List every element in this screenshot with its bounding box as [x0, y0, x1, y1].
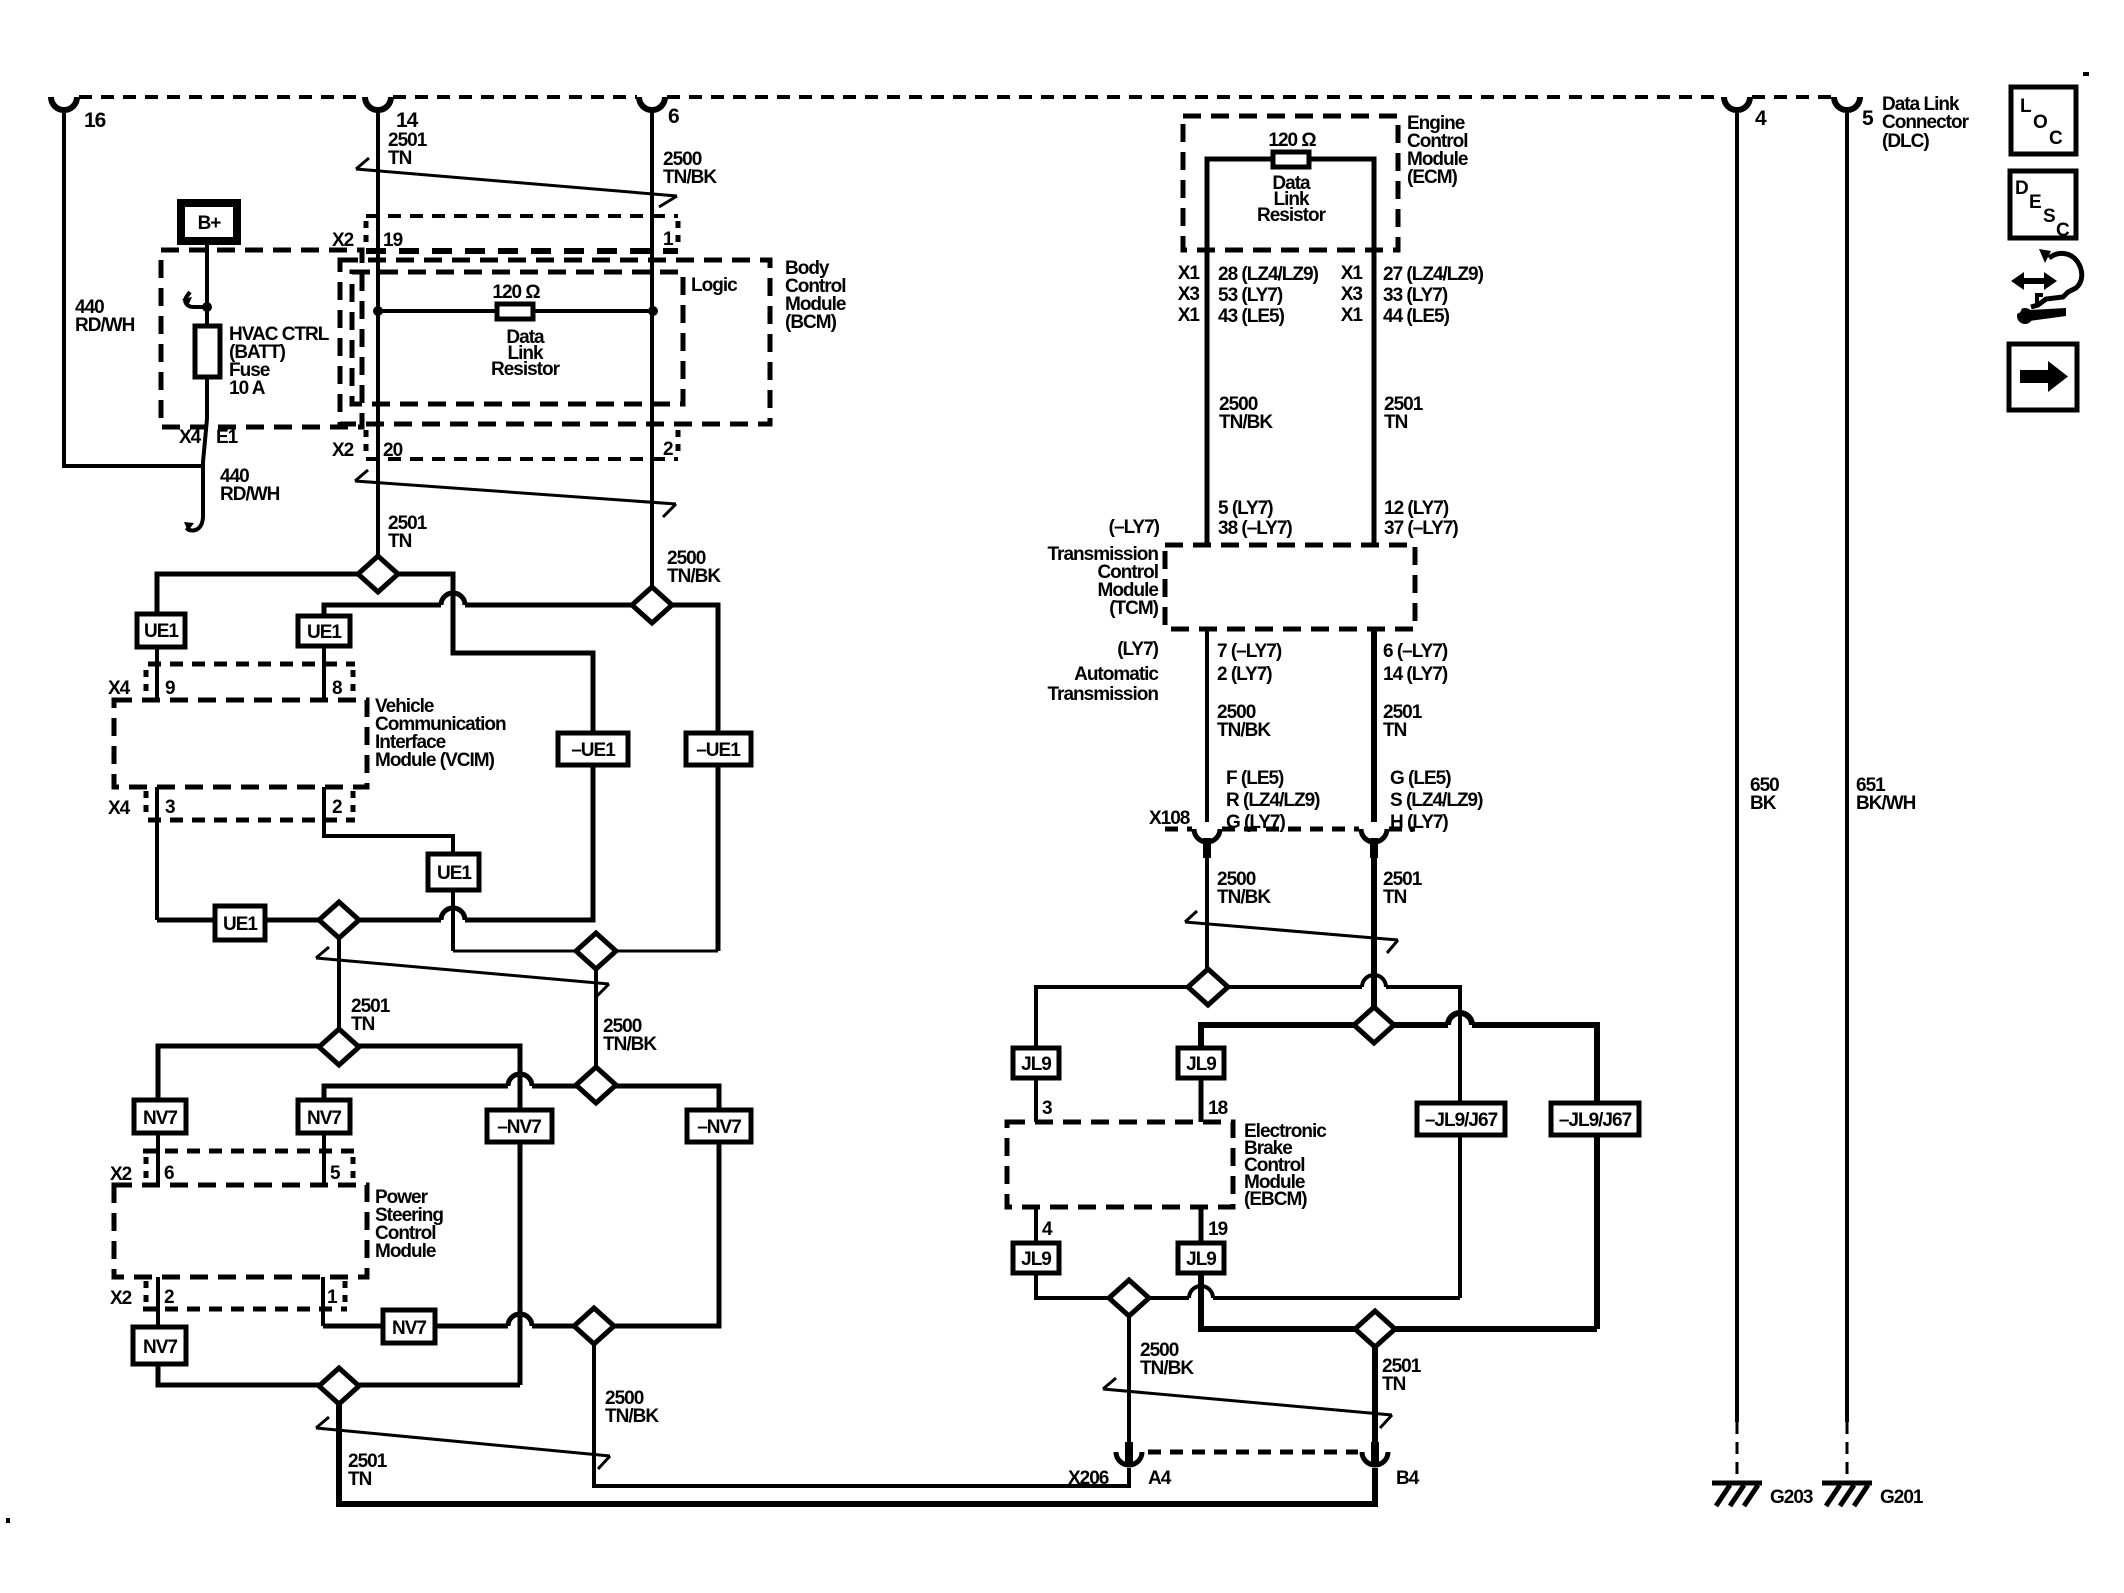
diamond splice on 2500 row B [632, 587, 672, 623]
BCM connector strip X2 pins 19 / 1 [366, 216, 678, 251]
wire 2500 below TCM [1205, 629, 1209, 822]
Data Link Resistor label BCM [491, 327, 561, 380]
wire label 2501 TN [351, 996, 391, 1035]
X206 dashed connector line [1148, 1450, 1358, 1455]
stray mark bottom left [6, 1518, 10, 1523]
svg-text:6: 6 [164, 1163, 174, 1184]
wire 440 RD/WH from DLC pin 16 [64, 108, 203, 466]
X108 male pin right [1370, 838, 1378, 858]
svg-text:O: O [2033, 112, 2047, 133]
svg-text:JL9: JL9 [1021, 1249, 1051, 1270]
CAN high row C 2501 [157, 765, 593, 920]
svg-text:TN/BK: TN/BK [1219, 412, 1273, 433]
svg-text:6 (–LY7): 6 (–LY7) [1383, 641, 1448, 662]
svg-text:4: 4 [1755, 107, 1767, 130]
BCM logic dashed box [352, 272, 683, 404]
svg-text:X4: X4 [179, 427, 202, 448]
svg-text:G (LE5): G (LE5) [1390, 768, 1451, 789]
svg-text:UE1: UE1 [437, 863, 472, 884]
vehicle wrench icon [2011, 249, 2082, 324]
junction dot at fuse top [202, 302, 212, 312]
wire 2500 TN/BK to X206 A4 [594, 1344, 1129, 1486]
wire label 2500 TN/BK [663, 149, 717, 188]
twisted pair symbol TCM [1185, 911, 1398, 953]
wire 2500 TN/BK between splices [594, 969, 598, 1068]
wire PSCM pin 2 [156, 1277, 160, 1327]
wire label 440 RD/WH lower [220, 466, 280, 505]
svg-text:2: 2 [164, 1287, 174, 1308]
JL9 code box pin4 [1013, 1243, 1059, 1273]
row4 2501 [1201, 1273, 1597, 1329]
svg-text:Transmission: Transmission [1048, 684, 1159, 705]
svg-text:Automatic: Automatic [1074, 664, 1159, 685]
X206 cup B4 [1362, 1452, 1388, 1465]
stray mark top right [2083, 72, 2089, 76]
svg-text:120 Ω: 120 Ω [1268, 130, 1316, 151]
DESC icon box [2010, 171, 2076, 241]
TCM module dashed box [1165, 545, 1415, 629]
wire label 2501 TN [1383, 702, 1423, 741]
DLC dashed bus line [79, 95, 1832, 99]
svg-text:–UE1: –UE1 [571, 740, 616, 761]
wire EBCM pin 3 [1034, 1078, 1038, 1122]
transmission usage pin labels left [1226, 768, 1320, 833]
svg-text:18: 18 [1208, 1098, 1228, 1119]
Data Link Resistor label ECM [1257, 173, 1327, 226]
row3 2500 [1036, 1273, 1460, 1298]
row F 2501 [158, 1046, 520, 1110]
Vehicle Communication Interface Module (VCIM) label [375, 696, 506, 771]
wire 2501 TN between splices [337, 938, 341, 1030]
DLC pin 14 connector cup [365, 97, 391, 110]
wire label 651 BK/WH [1856, 775, 1916, 814]
dashed lead to G203 [1736, 1422, 1739, 1480]
row1 2500 [1036, 975, 1460, 1103]
row2 2501 [1201, 1013, 1597, 1103]
wire VCIM pin 3 down [155, 787, 159, 920]
diamond splice row D [576, 933, 616, 969]
svg-text:33 (LY7): 33 (LY7) [1383, 285, 1448, 306]
svg-text:20: 20 [383, 440, 403, 461]
svg-text:3: 3 [1042, 1098, 1052, 1119]
X108 cup right [1361, 829, 1387, 842]
twisted pair symbol upper [356, 158, 677, 207]
Data Link Connector (DLC) label [1882, 94, 1970, 152]
NV7 code box on row H [383, 1310, 435, 1343]
svg-text:Module: Module [375, 1241, 436, 1262]
diamond splice row4 [1355, 1311, 1395, 1347]
hook arrow at fuse feed [185, 292, 205, 307]
wire below second -JL9/J67 [1594, 1135, 1600, 1329]
BCM connector strip X2 pins 20 / 2 [366, 430, 678, 459]
svg-text:–JL9/J67: –JL9/J67 [1559, 1110, 1632, 1131]
svg-text:JL9: JL9 [1186, 1054, 1216, 1075]
svg-text:(DLC): (DLC) [1882, 131, 1929, 152]
-JL9/J67 code box second [1551, 1103, 1639, 1135]
svg-text:53 (LY7): 53 (LY7) [1218, 285, 1283, 306]
svg-text:44 (LE5): 44 (LE5) [1383, 306, 1450, 327]
ground G203 [1712, 1483, 1762, 1506]
svg-text:X3: X3 [1178, 284, 1200, 305]
Transmission Control Module (TCM) label [1048, 544, 1159, 619]
wire below first -NV7 [518, 1142, 523, 1385]
-UE1 code box first [558, 733, 628, 765]
X108 dashed connector line [1165, 827, 1415, 832]
wire label 2501 TN [1382, 1356, 1422, 1395]
wire label 2500 TN/BK [1217, 869, 1271, 908]
svg-text:2: 2 [332, 797, 342, 818]
svg-text:14 (LY7): 14 (LY7) [1383, 664, 1448, 685]
wire 2501 below TCM [1371, 629, 1377, 822]
svg-text:43 (LE5): 43 (LE5) [1218, 306, 1285, 327]
hook arrow at wire end [186, 516, 203, 530]
wire VCIM pin 8 [322, 646, 326, 700]
svg-text:Connector: Connector [1882, 112, 1970, 133]
wire EBCM pin 19 [1199, 1207, 1204, 1243]
diamond splice row1 [1188, 969, 1228, 1005]
svg-text:38 (–LY7): 38 (–LY7) [1218, 518, 1292, 539]
svg-text:BK: BK [1750, 793, 1777, 814]
wire label 2500 TN/BK below BCM [667, 548, 721, 587]
svg-text:1: 1 [663, 229, 674, 250]
wire PSCM pin 1 [321, 1277, 325, 1326]
Automatic Transmission label [1048, 664, 1160, 705]
ECM data link resistor circuit wires [1207, 159, 1374, 545]
wire 650 BK [1735, 108, 1739, 1422]
wire label 2501 TN below BCM [388, 513, 428, 552]
X206 male pin A4 [1125, 1442, 1133, 1464]
JL9 code box pin19 [1178, 1243, 1224, 1273]
svg-text:120 Ω: 120 Ω [492, 282, 540, 303]
UE1 code box left [137, 614, 185, 647]
data link resistor wire in BCM [378, 309, 653, 313]
wire label 650 BK [1750, 775, 1779, 814]
svg-text:UE1: UE1 [223, 914, 258, 935]
UE1 code box center [428, 854, 479, 890]
BCM module dashed box [340, 260, 770, 424]
twisted pair symbol below BCM [355, 470, 676, 517]
-NV7 code box second [687, 1110, 751, 1142]
wire pin 6 into PSCM [156, 1133, 160, 1185]
svg-text:Module (VCIM): Module (VCIM) [375, 750, 495, 771]
Body Control Module (BCM) label [785, 258, 846, 333]
svg-text:12 (LY7): 12 (LY7) [1384, 498, 1449, 519]
wire label 2500 TN/BK [1217, 702, 1271, 741]
svg-text:10 A: 10 A [229, 378, 266, 399]
ground G201 [1822, 1483, 1872, 1506]
svg-text:3: 3 [165, 797, 175, 818]
svg-text:D: D [2015, 178, 2028, 199]
wire label 2500 TN/BK [603, 1016, 657, 1055]
svg-text:1: 1 [327, 1287, 338, 1308]
svg-text:X4: X4 [108, 798, 131, 819]
VCIM connector strip X4 pins 3 / 2 [146, 791, 355, 820]
svg-text:TN: TN [348, 1469, 372, 1490]
transmission usage pin labels right [1390, 768, 1483, 833]
JL9 code box pin3 [1013, 1048, 1059, 1078]
wire EBCM pin 18 [1199, 1078, 1204, 1122]
svg-text:X206: X206 [1068, 1468, 1109, 1489]
svg-text:X108: X108 [1149, 808, 1190, 829]
DLC pin 16 connector cup [51, 97, 77, 110]
NV7 code box pin2 [133, 1327, 186, 1364]
svg-text:(BCM): (BCM) [785, 312, 837, 333]
svg-text:TN/BK: TN/BK [667, 566, 721, 587]
CAN low row D 2500 [453, 950, 718, 953]
diamond splice row H [574, 1308, 614, 1344]
X108 male pin left [1203, 838, 1211, 858]
svg-text:TN: TN [351, 1014, 375, 1035]
svg-text:2: 2 [663, 439, 673, 460]
wire label 2501 TN [388, 130, 428, 169]
wire label 2500 TN/BK [1140, 1340, 1194, 1379]
svg-text:G201: G201 [1880, 1487, 1924, 1508]
svg-text:E1: E1 [216, 427, 239, 448]
CAN low row B 2500 [324, 593, 718, 733]
svg-text:NV7: NV7 [307, 1108, 341, 1129]
svg-text:X2: X2 [110, 1164, 132, 1185]
diamond splice row2 [1354, 1007, 1394, 1043]
ECM pin rows left [1178, 263, 1319, 327]
wire 2500 TN/BK to X206 [1127, 1316, 1131, 1442]
UE1 code box on row C [215, 906, 265, 940]
X206 male pin B4 [1371, 1442, 1379, 1464]
wire VCIM pin 2 to UE1 [324, 787, 453, 854]
UE1 code box second [298, 616, 350, 646]
svg-text:X1: X1 [1178, 305, 1201, 326]
svg-text:28 (LZ4/LZ9): 28 (LZ4/LZ9) [1218, 264, 1319, 285]
wire 2501 below X108 [1371, 858, 1377, 1007]
svg-text:C: C [2049, 128, 2063, 149]
svg-text:2 (LY7): 2 (LY7) [1217, 664, 1272, 685]
svg-text:7 (–LY7): 7 (–LY7) [1217, 641, 1282, 662]
svg-text:TN/BK: TN/BK [1217, 887, 1271, 908]
PSCM module dashed box [114, 1185, 367, 1277]
svg-text:NV7: NV7 [392, 1318, 426, 1339]
svg-text:X1: X1 [1341, 305, 1364, 326]
svg-text:6: 6 [668, 105, 679, 128]
svg-text:TN/BK: TN/BK [1140, 1358, 1194, 1379]
wire below first -JL9/J67 [1458, 1135, 1462, 1298]
svg-text:X1: X1 [1341, 263, 1364, 284]
svg-text:TN/BK: TN/BK [663, 167, 717, 188]
JL9 code box pin18 [1178, 1048, 1224, 1078]
CAN high row A 2501 [157, 574, 593, 733]
svg-text:X3: X3 [1341, 284, 1363, 305]
svg-text:5: 5 [330, 1163, 341, 1184]
wire label 440 RD/WH [75, 297, 135, 336]
svg-text:TN: TN [1383, 720, 1407, 741]
TCM pin labels upper right [1384, 498, 1458, 539]
Electronic Brake Control Module (EBCM) label [1244, 1121, 1327, 1210]
svg-text:Resistor: Resistor [491, 359, 561, 380]
junction node right [648, 306, 658, 316]
svg-text:TN: TN [388, 531, 412, 552]
VCIM connector strip X4 pins 9 / 8 [146, 664, 355, 697]
svg-text:(TCM): (TCM) [1109, 598, 1158, 619]
svg-text:8: 8 [332, 678, 342, 699]
Power Steering Control Module label [375, 1187, 443, 1262]
row G 2501 [158, 1364, 520, 1385]
svg-text:19: 19 [1208, 1219, 1228, 1240]
wire label 2501 TN [1383, 869, 1423, 908]
junction node left [373, 306, 383, 316]
svg-text:37 (–LY7): 37 (–LY7) [1384, 518, 1458, 539]
twisted pair symbol VCIM left [316, 947, 609, 997]
svg-text:(EBCM): (EBCM) [1244, 1189, 1307, 1210]
Engine Control Module (ECM) label [1407, 113, 1468, 188]
wire 2501 TN to X206 [1372, 1347, 1378, 1442]
svg-text:4: 4 [1042, 1219, 1053, 1240]
wire pin 5 into PSCM [322, 1133, 326, 1185]
svg-text:19: 19 [383, 230, 403, 251]
wire from B+ into fuse [205, 241, 209, 419]
svg-text:TN: TN [1382, 1374, 1406, 1395]
row E 2500 [324, 1074, 719, 1110]
wire below second -UE1 [716, 765, 721, 951]
ECM module dashed box [1183, 116, 1398, 250]
svg-text:(LY7): (LY7) [1117, 639, 1158, 660]
twisted pair symbol EBCM bottom [1103, 1378, 1392, 1428]
svg-text:RD/WH: RD/WH [75, 315, 135, 336]
svg-text:X2: X2 [110, 1288, 132, 1309]
svg-text:–NV7: –NV7 [697, 1117, 741, 1138]
svg-text:NV7: NV7 [143, 1108, 177, 1129]
diamond splice row C [319, 902, 359, 938]
-UE1 code box second [686, 733, 751, 765]
diamond splice on 2501 row A [358, 556, 398, 592]
wire label 2501 TN [1384, 394, 1424, 433]
svg-text:9: 9 [165, 678, 175, 699]
-NV7 code box first [487, 1110, 552, 1142]
svg-text:E: E [2029, 192, 2041, 213]
wire 2500 below X108 [1205, 858, 1209, 969]
TCM pin labels lower right [1383, 641, 1448, 685]
svg-text:5: 5 [1862, 107, 1874, 130]
diamond splice row G [319, 1368, 359, 1404]
svg-text:TN: TN [1384, 412, 1408, 433]
svg-text:JL9: JL9 [1186, 1249, 1216, 1270]
wire 2501 TN to X206 B4 [339, 1404, 1375, 1504]
resistor 120 ohm BCM [497, 304, 533, 319]
-JL9/J67 code box first [1417, 1103, 1505, 1135]
wire 651 BK/WH [1845, 108, 1849, 1422]
DLC pin 6 connector cup [639, 97, 665, 110]
HVAC fuse dashed box [161, 250, 362, 427]
svg-text:27 (LZ4/LZ9): 27 (LZ4/LZ9) [1383, 264, 1484, 285]
svg-text:Logic: Logic [691, 275, 738, 296]
svg-text:R (LZ4/LZ9): R (LZ4/LZ9) [1226, 790, 1320, 811]
svg-text:X2: X2 [332, 440, 354, 461]
arrow icon box [2009, 344, 2077, 410]
svg-text:A4: A4 [1148, 1468, 1172, 1489]
svg-text:X4: X4 [108, 678, 131, 699]
EBCM module dashed box [1007, 1122, 1233, 1207]
svg-text:S (LZ4/LZ9): S (LZ4/LZ9) [1390, 790, 1483, 811]
wire VCIM pin 9 [155, 647, 159, 700]
svg-text:5 (LY7): 5 (LY7) [1218, 498, 1273, 519]
svg-text:UE1: UE1 [144, 621, 179, 642]
wire below center UE1 [451, 890, 455, 951]
wire 440 RD/WH below fuse [203, 419, 207, 518]
LOC icon box [2011, 87, 2076, 154]
fuse label [229, 324, 330, 399]
wire 2501 TN from DLC pin 14 [376, 108, 380, 557]
svg-text:X2: X2 [332, 230, 354, 251]
X108 cup left [1194, 829, 1220, 842]
svg-text:S: S [2043, 206, 2055, 227]
svg-text:BK/WH: BK/WH [1856, 793, 1916, 814]
svg-text:B4: B4 [1396, 1468, 1420, 1489]
svg-text:UE1: UE1 [307, 622, 342, 643]
DLC pin 4 connector cup [1724, 97, 1750, 110]
NV7 code box pin5 [298, 1100, 350, 1133]
svg-text:C: C [2056, 220, 2070, 241]
PSCM connector strip X2 pins 6 / 5 [143, 1151, 355, 1183]
wire label 2500 TN/BK [605, 1388, 659, 1427]
svg-text:TN: TN [388, 148, 412, 169]
svg-text:RD/WH: RD/WH [220, 484, 280, 505]
svg-text:16: 16 [84, 109, 106, 132]
wire label 2501 TN [348, 1451, 388, 1490]
dashed lead to G201 [1846, 1422, 1849, 1480]
svg-text:(–LY7): (–LY7) [1109, 517, 1160, 538]
svg-text:F (LE5): F (LE5) [1226, 768, 1284, 789]
diamond splice row E [576, 1067, 616, 1103]
TCM pin labels lower left [1217, 641, 1282, 685]
svg-text:14: 14 [396, 109, 419, 132]
svg-text:TN: TN [1383, 887, 1407, 908]
twisted pair symbol PSCM bottom [316, 1417, 610, 1469]
NV7 code box pin6 [134, 1100, 186, 1133]
svg-text:–NV7: –NV7 [497, 1117, 541, 1138]
svg-text:JL9: JL9 [1021, 1054, 1051, 1075]
svg-text:L: L [2020, 96, 2032, 117]
svg-text:(ECM): (ECM) [1407, 167, 1458, 188]
svg-text:TN/BK: TN/BK [605, 1406, 659, 1427]
resistor 120 ohm ECM [1273, 152, 1309, 167]
TCM pin labels upper left [1218, 498, 1292, 539]
ECM pin rows right [1341, 263, 1484, 327]
diamond splice row F [319, 1029, 359, 1065]
wire label 2500 TN/BK [1219, 394, 1273, 433]
svg-text:–UE1: –UE1 [696, 740, 741, 761]
VCIM module dashed box [114, 700, 367, 787]
svg-text:G203: G203 [1770, 1487, 1813, 1508]
PSCM connector strip X2 pins 2 / 1 [143, 1281, 347, 1309]
battery feed B+ box [181, 203, 237, 241]
wire 2500 TN/BK from DLC pin 6 [650, 108, 654, 588]
row H 2500 [323, 1142, 719, 1326]
svg-text:B+: B+ [198, 213, 222, 234]
svg-text:X1: X1 [1178, 263, 1201, 284]
DLC pin 5 connector cup [1834, 97, 1860, 110]
svg-text:Resistor: Resistor [1257, 205, 1327, 226]
svg-text:TN/BK: TN/BK [1217, 720, 1271, 741]
svg-text:TN/BK: TN/BK [603, 1034, 657, 1055]
svg-text:–JL9/J67: –JL9/J67 [1425, 1110, 1498, 1131]
fuse HVAC CTRL (BATT) 10 A [195, 326, 220, 377]
diamond splice row3 [1109, 1280, 1149, 1316]
X206 cup A4 [1116, 1452, 1142, 1465]
svg-text:NV7: NV7 [143, 1337, 177, 1358]
wire EBCM pin 4 [1034, 1207, 1038, 1243]
